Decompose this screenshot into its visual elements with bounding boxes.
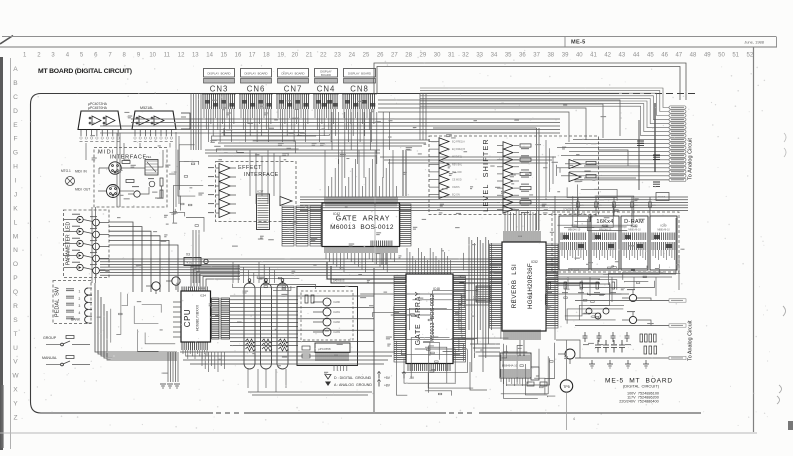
data bus labels bbox=[333, 276, 548, 288]
svg-text:52: 52 bbox=[747, 53, 754, 59]
svg-text:10: 10 bbox=[149, 53, 156, 59]
ground marks bottom right bbox=[589, 360, 649, 368]
level shifter op-amp B1 bbox=[429, 138, 465, 146]
op-amp IC2 M5218L bbox=[132, 106, 176, 142]
svg-text:HD63B1Y0BXXX: HD63B1Y0BXXX bbox=[196, 304, 200, 331]
svg-text:MIDI OUT: MIDI OUT bbox=[75, 188, 90, 192]
manual switch bbox=[42, 356, 90, 366]
svg-text:23: 23 bbox=[334, 53, 341, 59]
svg-text:42: 42 bbox=[604, 53, 611, 59]
svg-text:47: 47 bbox=[675, 53, 682, 59]
wire maze below IC52 bbox=[501, 343, 556, 399]
wire drops below resistor arrays bbox=[202, 352, 372, 395]
svg-text:I: I bbox=[15, 178, 17, 185]
level shifter op-amp C9 bbox=[497, 199, 531, 207]
svg-text:4.91: 4.91 bbox=[187, 261, 193, 265]
connector CN3 (to display board) bbox=[202, 69, 236, 110]
svg-text:PE1: PE1 bbox=[146, 155, 152, 159]
svg-text:ME-5: ME-5 bbox=[571, 40, 586, 46]
wire bundle below CN3 bbox=[204, 109, 234, 142]
svg-text:22: 22 bbox=[320, 53, 327, 59]
wire level shifter outputs bbox=[584, 150, 640, 178]
svg-text:-5V: -5V bbox=[409, 376, 415, 380]
svg-text:19: 19 bbox=[277, 53, 284, 59]
pedal switch SW4 bbox=[66, 309, 92, 316]
svg-text:EQ FREQ B: EQ FREQ B bbox=[452, 148, 465, 151]
header rule upper bbox=[2, 36, 776, 38]
LED D5 bbox=[64, 262, 84, 271]
svg-text:LEVEL SHIFTER: LEVEL SHIFTER bbox=[481, 138, 490, 212]
svg-text:51: 51 bbox=[732, 53, 739, 59]
level shifter op-amp C2 bbox=[497, 149, 529, 157]
svg-text:220/240V 7524886400: 220/240V 7524886400 bbox=[619, 400, 658, 404]
wire maze top mid bbox=[212, 128, 330, 156]
svg-text:MB8146-10: MB8146-10 bbox=[568, 229, 581, 232]
svg-text:H: H bbox=[13, 164, 18, 171]
LED D4 bbox=[64, 250, 84, 259]
op-amp A7 bbox=[280, 197, 292, 206]
svg-text:D: D bbox=[13, 108, 18, 115]
svg-text:M5218L: M5218L bbox=[140, 106, 153, 110]
effect interface block bbox=[216, 162, 297, 222]
resistor R20 bbox=[305, 295, 308, 303]
svg-text:15: 15 bbox=[220, 53, 227, 59]
svg-text:DA81: DA81 bbox=[334, 310, 341, 314]
data bus pair bbox=[327, 262, 600, 283]
level shifter op-amp C5 bbox=[497, 170, 531, 178]
level shifter op-amp C1 bbox=[497, 142, 531, 150]
pedal switch SW3 bbox=[66, 303, 92, 310]
diode D6 bbox=[148, 178, 155, 187]
resistor R4 bbox=[160, 190, 163, 198]
svg-text:16: 16 bbox=[235, 53, 242, 59]
transistor Q8 bbox=[146, 282, 160, 294]
svg-text:1: 1 bbox=[79, 290, 81, 294]
wire maze midi right bbox=[170, 145, 205, 232]
wire CN8 to level shifter bbox=[378, 100, 620, 142]
op-amp IC1 uPC4072HA bbox=[78, 102, 121, 142]
title block ME-5 bbox=[565, 37, 777, 48]
analog switch IC37 bbox=[257, 190, 270, 230]
connector CN6 (to display board) bbox=[239, 69, 273, 110]
transistor Q21 bbox=[622, 289, 637, 302]
wire RAM to bus bbox=[555, 196, 679, 340]
D-RAM IC80 MB81416 bbox=[650, 216, 677, 270]
tiny reference designator speckle bbox=[90, 100, 684, 375]
svg-text:20: 20 bbox=[292, 53, 299, 59]
wire midi to bus bbox=[120, 150, 164, 198]
svg-text:27: 27 bbox=[391, 53, 398, 59]
wire main bus mid bbox=[100, 259, 558, 275]
level shifter op-amp B4 bbox=[429, 161, 463, 169]
photocoupler PE1 bbox=[145, 155, 158, 175]
op-amp A3 bbox=[208, 182, 236, 191]
svg-text:48: 48 bbox=[690, 53, 697, 59]
svg-text:REV BAL: REV BAL bbox=[452, 163, 463, 166]
svg-text:12: 12 bbox=[178, 53, 185, 59]
grid row letters A-Z bbox=[12, 66, 19, 422]
transistor Q22 bbox=[622, 311, 637, 324]
level shifter op-amp C10 bbox=[497, 206, 529, 214]
wire bundle below CN8 bbox=[344, 109, 374, 142]
reverb LSI IC52 bbox=[490, 231, 559, 340]
svg-text:E: E bbox=[13, 122, 18, 129]
parameter LED block bbox=[64, 210, 110, 278]
svg-text:EQ ON: EQ ON bbox=[452, 194, 460, 197]
svg-text:MTG.1: MTG.1 bbox=[61, 169, 71, 173]
svg-text:32: 32 bbox=[462, 53, 469, 59]
resistor R3 bbox=[160, 178, 163, 186]
svg-text:C: C bbox=[13, 94, 18, 101]
RAM label 16Kx4 bbox=[596, 219, 613, 229]
RAM label D-RAM bbox=[624, 219, 644, 229]
svg-text:BOARD: BOARD bbox=[321, 73, 331, 77]
svg-text:IC52: IC52 bbox=[531, 260, 538, 264]
wire maze between IC48 and IC52 bbox=[458, 253, 465, 329]
board name text bbox=[605, 378, 673, 404]
transistor Q3 bbox=[83, 216, 109, 229]
svg-text:A: A bbox=[13, 66, 18, 73]
svg-text:MB8146-10: MB8146-10 bbox=[657, 229, 670, 232]
wire maze below effect interface bbox=[233, 276, 316, 290]
level shifter op-amp D1 bbox=[569, 160, 596, 169]
connector CN7 (to display board) bbox=[276, 69, 310, 110]
svg-text:S: S bbox=[13, 317, 18, 324]
LED D3 bbox=[64, 238, 84, 247]
svg-text:TP5: TP5 bbox=[563, 385, 570, 389]
wire verticals into reverb top bbox=[505, 210, 539, 231]
page edge left inner bbox=[10, 58, 12, 449]
svg-text:INTERFACE: INTERFACE bbox=[110, 155, 147, 161]
wire CN bundle drops to IC42 bbox=[250, 112, 390, 204]
svg-text:(DIGITAL CIRCUIT): (DIGITAL CIRCUIT) bbox=[623, 384, 660, 389]
svg-text:MT BOARD (DIGITAL CIRCUIT): MT BOARD (DIGITAL CIRCUIT) bbox=[38, 68, 132, 75]
svg-text:43: 43 bbox=[619, 53, 626, 59]
svg-text:DISPLAY BOARD: DISPLAY BOARD bbox=[207, 72, 230, 76]
op-amp A4 bbox=[208, 191, 236, 200]
gate array IC48 bbox=[394, 248, 466, 371]
transistor Q13 bbox=[313, 308, 341, 316]
connector CN4 (to display board) bbox=[313, 69, 339, 110]
wire feed bundle 1 staircase bbox=[420, 88, 669, 136]
svg-text:34: 34 bbox=[491, 53, 498, 59]
MIDI OUT jack bbox=[75, 185, 120, 198]
svg-text:DATA BUS: DATA BUS bbox=[333, 280, 345, 283]
svg-text:F: F bbox=[13, 136, 17, 143]
svg-text:41: 41 bbox=[590, 53, 597, 59]
wire verticals midleft bbox=[117, 133, 199, 283]
D-RAM IC81 MB81416 bbox=[559, 216, 589, 270]
level shifter op-amp B8 bbox=[429, 191, 460, 199]
level shifter op-amp B6 bbox=[429, 176, 462, 184]
wire bundle above IC42 bbox=[325, 150, 396, 197]
CPU IC54 HD6301 bbox=[173, 287, 211, 360]
svg-text:2: 2 bbox=[79, 297, 81, 301]
wire bus upper left bbox=[100, 119, 560, 133]
op-amp A6 bbox=[208, 209, 236, 218]
pedal switch SW2 bbox=[66, 296, 92, 303]
svg-text:CE MOD: CE MOD bbox=[452, 179, 462, 182]
svg-text:CN4: CN4 bbox=[317, 85, 336, 94]
svg-text:June, 1988: June, 1988 bbox=[744, 40, 765, 45]
svg-text:O: O bbox=[13, 261, 18, 268]
svg-text:24: 24 bbox=[348, 53, 355, 59]
svg-text:REVERB LSI: REVERB LSI bbox=[511, 264, 518, 309]
wire maze bottom left bbox=[110, 292, 175, 351]
svg-text:To Analog Circuit: To Analog Circuit bbox=[688, 320, 694, 361]
svg-text:CN8: CN8 bbox=[350, 85, 369, 94]
scan noise dots bbox=[15, 50, 770, 431]
level shifter block bbox=[429, 136, 599, 215]
group switch bbox=[43, 336, 90, 346]
wire bundle 2 links bbox=[556, 284, 651, 358]
svg-text:INTERFACE: INTERFACE bbox=[244, 172, 279, 178]
level shifter op-amp B3 bbox=[429, 153, 462, 161]
DA converter block bbox=[297, 287, 358, 366]
level shifter op-amp B5 bbox=[429, 168, 463, 176]
svg-text:OD/DS: OD/DS bbox=[452, 186, 460, 189]
wire bundle below IC42 bbox=[326, 253, 394, 272]
pedal switch block bbox=[53, 281, 91, 324]
scan artifacts bottom right bbox=[777, 306, 793, 430]
level shifter op-amp C6 bbox=[497, 177, 529, 185]
wire LED-CPU verticals bbox=[92, 207, 96, 283]
ground legend bbox=[325, 372, 415, 388]
inductor L2 bbox=[122, 161, 130, 164]
MIDI interface block bbox=[94, 148, 167, 208]
wire CPU data bus bbox=[230, 296, 374, 345]
transistor Q2 bbox=[128, 186, 140, 197]
svg-text:GATE ARRAY: GATE ARRAY bbox=[336, 216, 390, 223]
svg-text:+5V: +5V bbox=[384, 376, 391, 380]
op-amp A1 bbox=[208, 164, 236, 173]
svg-text:DISPLAY BOARD: DISPLAY BOARD bbox=[348, 72, 371, 76]
level shifter op-amp C4 bbox=[497, 163, 529, 171]
wire bus upper right bbox=[300, 197, 688, 211]
svg-text:N: N bbox=[13, 247, 18, 254]
transistor Q7 bbox=[83, 264, 109, 277]
svg-text:4: 4 bbox=[79, 311, 81, 315]
wire collector CN to interface bbox=[191, 94, 426, 157]
svg-text:K: K bbox=[13, 205, 18, 212]
page corner mark bbox=[0, 36, 13, 45]
work RAM block group bbox=[552, 212, 679, 272]
svg-text:A : ANALOG GROUND: A : ANALOG GROUND bbox=[334, 383, 372, 387]
wire top right run bbox=[374, 63, 686, 100]
small parts clutter right of reverb bbox=[546, 282, 631, 345]
resistor cluster right bbox=[640, 334, 657, 354]
grid column numbers 1-52 bbox=[23, 53, 754, 59]
svg-text:G: G bbox=[13, 150, 18, 157]
svg-text:Y: Y bbox=[13, 401, 18, 408]
level shifter op-amp D2 bbox=[569, 173, 596, 182]
svg-text:50: 50 bbox=[718, 53, 725, 59]
resistor array RA3 bbox=[277, 279, 289, 369]
buffer IC53 bbox=[476, 286, 490, 302]
svg-text:3: 3 bbox=[79, 304, 81, 308]
pin header column B bbox=[221, 298, 230, 339]
svg-text:11: 11 bbox=[164, 53, 171, 59]
svg-text:CPU: CPU bbox=[183, 309, 192, 327]
wire bundle below CN7 bbox=[278, 109, 308, 142]
svg-text:L: L bbox=[14, 219, 18, 226]
svg-text:36: 36 bbox=[519, 53, 526, 59]
wire thick vertical pair bbox=[433, 128, 539, 230]
analog output bundle 1 bbox=[557, 103, 694, 190]
level shifter op-amp C8 bbox=[497, 191, 529, 199]
ground cluster CPU bbox=[160, 384, 180, 388]
transistor Q15 bbox=[313, 328, 341, 336]
svg-text:DA83: DA83 bbox=[334, 330, 341, 334]
wire reverb to DAC bbox=[466, 300, 524, 390]
MIDI IN jack bbox=[75, 162, 121, 174]
wire bundle below CN6 bbox=[241, 109, 271, 142]
svg-text:DISPLAY BOARD: DISPLAY BOARD bbox=[244, 72, 267, 76]
svg-text:GROUP: GROUP bbox=[43, 336, 57, 340]
svg-text:MB8146-10: MB8146-10 bbox=[628, 229, 641, 232]
wire bus pedal column bbox=[95, 283, 177, 360]
wire drops from RAM bus bbox=[568, 277, 656, 302]
svg-text:MANUAL: MANUAL bbox=[42, 356, 57, 360]
wire maze right of reverb lower bbox=[545, 280, 624, 324]
wire vertical x374 bbox=[374, 150, 406, 412]
D-RAM IC83 MB81416 bbox=[621, 216, 648, 270]
svg-text:38: 38 bbox=[547, 53, 554, 59]
wire CPU lower verticals bbox=[168, 352, 178, 382]
svg-text:HG61H20R36F: HG61H20R36F bbox=[527, 263, 534, 309]
D-RAM IC82 MB81416 bbox=[591, 216, 619, 270]
level shifter op-amp C3 bbox=[497, 156, 531, 164]
board outline bbox=[31, 94, 702, 414]
svg-text:EQ FREQ A: EQ FREQ A bbox=[452, 141, 465, 144]
page bottom rule bbox=[0, 432, 757, 434]
resistor array RA1 bbox=[244, 279, 256, 369]
bracket fitting right of IC2 bbox=[181, 113, 190, 129]
svg-text:D : DIGITAL GROUND: D : DIGITAL GROUND bbox=[334, 376, 372, 380]
svg-text:13: 13 bbox=[192, 53, 199, 59]
wire lower mid horizontals bbox=[180, 352, 395, 364]
resistor R21 bbox=[311, 295, 314, 303]
svg-text:+8V: +8V bbox=[384, 384, 391, 388]
svg-text:CN3: CN3 bbox=[210, 85, 229, 94]
svg-text:18: 18 bbox=[263, 53, 270, 59]
svg-text:μPC4570HA: μPC4570HA bbox=[88, 106, 108, 110]
svg-text:45: 45 bbox=[647, 53, 654, 59]
svg-text:W: W bbox=[12, 373, 19, 380]
svg-text:M60013 BOS-0012: M60013 BOS-0012 bbox=[430, 294, 436, 342]
svg-text:GATE ARRAY: GATE ARRAY bbox=[415, 291, 422, 345]
wire bus into CPU top bbox=[191, 266, 240, 287]
RAM control bus parts bbox=[563, 197, 656, 216]
svg-text:39: 39 bbox=[562, 53, 569, 59]
op-amp A5 bbox=[208, 200, 236, 209]
op-amp IC56 bbox=[315, 343, 350, 361]
level shifter op-amp B7 bbox=[429, 183, 460, 191]
svg-text:25: 25 bbox=[363, 53, 370, 59]
svg-text:DATA BUS: DATA BUS bbox=[568, 269, 579, 272]
svg-text:M60013 BOS-0012: M60013 BOS-0012 bbox=[330, 224, 394, 231]
svg-text:29: 29 bbox=[420, 53, 427, 59]
svg-text:14: 14 bbox=[206, 53, 213, 59]
svg-text:31: 31 bbox=[448, 53, 455, 59]
svg-text:DISPLAY BOARD: DISPLAY BOARD bbox=[281, 72, 304, 76]
scan artifact right bbox=[784, 133, 786, 142]
transistor Q6 bbox=[83, 252, 109, 265]
transistor Q12 bbox=[313, 298, 341, 306]
svg-text:PEDAL SW: PEDAL SW bbox=[55, 286, 61, 317]
svg-text:MB8464A-10: MB8464A-10 bbox=[502, 364, 518, 368]
svg-text:X3: X3 bbox=[186, 253, 190, 257]
svg-text:M: M bbox=[13, 233, 19, 240]
transistor Q5 bbox=[83, 240, 109, 253]
header rule lower bbox=[0, 46, 777, 48]
capacitor block C90 bbox=[527, 367, 547, 386]
svg-text:28: 28 bbox=[405, 53, 412, 59]
svg-text:IC37: IC37 bbox=[257, 190, 264, 194]
wire bundle below CN4 bbox=[315, 109, 336, 142]
svg-text:26: 26 bbox=[377, 53, 384, 59]
wire maze below IC48 bbox=[396, 337, 477, 396]
svg-text:U: U bbox=[13, 345, 18, 352]
svg-text:To Analog Circuit: To Analog Circuit bbox=[688, 138, 694, 180]
wire IC pins down bbox=[86, 132, 179, 207]
svg-text:J: J bbox=[14, 192, 17, 199]
svg-text:DA80: DA80 bbox=[334, 300, 341, 304]
pedal switch SW1 bbox=[66, 288, 92, 295]
svg-text:R: R bbox=[13, 303, 18, 310]
svg-text:T: T bbox=[13, 331, 17, 338]
power box POW.B bbox=[656, 193, 669, 201]
svg-text:µPC4558: µPC4558 bbox=[318, 347, 331, 351]
svg-text:4: 4 bbox=[573, 417, 575, 421]
LED D2 bbox=[64, 226, 84, 235]
resistor array RA2 bbox=[261, 279, 273, 369]
svg-text:CN6: CN6 bbox=[247, 85, 266, 94]
svg-text:35: 35 bbox=[505, 53, 512, 59]
svg-text:37: 37 bbox=[533, 53, 540, 59]
svg-text:49: 49 bbox=[704, 53, 711, 59]
analog output bundle 2 bbox=[575, 299, 694, 361]
svg-text:CN7: CN7 bbox=[284, 85, 303, 94]
transistor Q14 bbox=[313, 318, 341, 326]
svg-text:30: 30 bbox=[434, 53, 441, 59]
wire maze right of IC52 bbox=[557, 185, 634, 231]
page edge right bbox=[753, 47, 755, 432]
transistor Q4 bbox=[83, 228, 109, 241]
gate array IC42 bbox=[322, 197, 411, 254]
svg-text:V: V bbox=[13, 359, 18, 366]
transistor trio right bbox=[586, 308, 609, 319]
svg-text:DA82: DA82 bbox=[334, 320, 341, 324]
pin header column A bbox=[212, 298, 220, 339]
crystal X3 bbox=[184, 253, 208, 266]
pedal switch SW5 bbox=[66, 316, 92, 323]
svg-text:MIDI IN: MIDI IN bbox=[75, 170, 87, 174]
svg-text:40: 40 bbox=[576, 53, 583, 59]
svg-text:BANK: BANK bbox=[71, 318, 81, 322]
svg-text:X: X bbox=[13, 387, 18, 394]
small parts DA left bbox=[302, 346, 310, 358]
wire bundle between IC48 and IC52 bbox=[469, 237, 500, 372]
op-amp A2 bbox=[208, 173, 236, 182]
svg-text:POW.B: POW.B bbox=[658, 197, 666, 199]
wire collector rows below connectors bbox=[212, 140, 556, 163]
svg-text:Q: Q bbox=[13, 289, 18, 296]
svg-text:IC54: IC54 bbox=[200, 294, 206, 298]
level shifter op-amp C7 bbox=[497, 184, 531, 192]
svg-text:P: P bbox=[13, 275, 18, 282]
capacitor cluster right bbox=[595, 340, 625, 353]
